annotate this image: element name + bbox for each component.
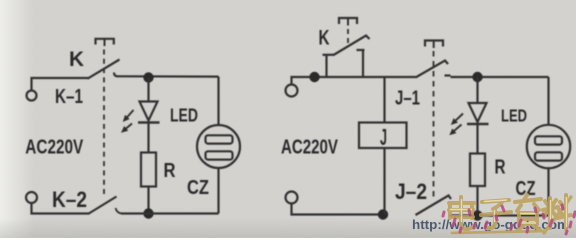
svg-text:K: K (69, 48, 84, 71)
svg-text:K–2: K–2 (52, 187, 87, 212)
svg-text:LED: LED (170, 106, 198, 126)
svg-text:AC220V: AC220V (281, 135, 338, 158)
svg-text:LED: LED (501, 106, 527, 126)
svg-text:K: K (319, 25, 330, 49)
svg-text:J–1: J–1 (395, 88, 420, 110)
svg-text:R: R (164, 159, 176, 182)
svg-text:J–2: J–2 (395, 179, 427, 204)
svg-text:AC220V: AC220V (25, 135, 83, 158)
svg-text:CZ: CZ (187, 177, 209, 199)
svg-text:R: R (495, 156, 506, 179)
svg-text:K–1: K–1 (55, 86, 83, 108)
svg-text:J: J (380, 124, 387, 150)
